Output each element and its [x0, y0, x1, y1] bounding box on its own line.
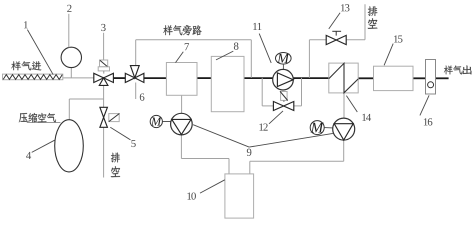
wire: bypass drop to main line — [250, 40, 252, 78]
wire: main sample line box8-pump11 — [244, 77, 273, 79]
left condensate pump — [171, 113, 193, 135]
membrane dryer 14 (square with membrane) — [329, 63, 358, 93]
box 8 (analyzer unit) — [211, 56, 244, 111]
reference numeral 7 — [185, 43, 189, 50]
box 7 (conditioning unit) — [166, 63, 197, 96]
label text: compressed air — [19, 113, 28, 122]
valve 5 (vent solenoid valve) — [100, 107, 108, 117]
reference numeral 11 — [253, 23, 257, 30]
leader line label 12 — [269, 111, 283, 124]
leader line label 1 — [27, 30, 53, 75]
left condensate pump motor M — [150, 115, 162, 127]
label text: sample gas bypass — [163, 25, 172, 35]
label text: vent (below valve 5, vertical) — [111, 153, 120, 163]
wire: valve12 loop right horizontal — [294, 105, 302, 107]
sample pump 11 — [273, 69, 294, 90]
leader line label 16 — [420, 95, 429, 115]
valve 12 (pump bypass solenoid valve) — [273, 102, 283, 111]
reference numeral 3 — [101, 24, 105, 31]
compressed air tank 4 (ellipse) — [55, 120, 84, 172]
valve 6 (three-way bypass valve) — [125, 73, 135, 82]
wire: vent branch riser to valve13 — [308, 40, 310, 78]
wire: left pump drain into box 10 — [228, 159, 230, 174]
condensate collector 10 — [225, 174, 254, 218]
leader line label 14 — [346, 96, 357, 112]
leader line label 6 — [135, 83, 137, 100]
wire: valve12 loop left horizontal — [262, 105, 273, 107]
leader line label 13 — [329, 13, 340, 29]
valve 3 actuator box — [100, 60, 108, 67]
wire: compressed air label underline — [27, 121, 61, 123]
leader line label 7 — [176, 52, 184, 63]
wire: sample inlet line to valve 3 — [63, 77, 94, 79]
reference numeral 12 — [259, 124, 263, 131]
leader line label 2 — [68, 14, 70, 48]
wire: valve13 to vent corner — [346, 39, 365, 41]
wire: valve3 bottom to valve5 — [103, 85, 105, 107]
wire: main sample line dryer14-box15 — [358, 77, 373, 79]
reference numeral 4 — [26, 152, 31, 159]
leader line label 10 — [200, 180, 225, 193]
wire: main sample line box15-flowmeter16 — [413, 77, 426, 79]
wire: box7 stem to pump — [181, 95, 183, 113]
label text: sample gas out — [444, 66, 453, 75]
right condensate pump motor M — [310, 121, 324, 135]
valve 3 (three-way solenoid valve) — [94, 73, 104, 82]
reference numeral 14 — [362, 114, 366, 121]
wire: vent branch to valve13 — [309, 39, 326, 41]
flow meter 16 — [426, 60, 436, 95]
wire: gauge 2 stem — [70, 68, 72, 78]
reference numeral 9 — [247, 149, 252, 156]
leader line label 4 — [32, 140, 55, 152]
wire: main sample line pump11-dryer14 — [293, 77, 329, 79]
reference numeral 8 — [234, 42, 239, 49]
label text: vent (top right, vertical) — [368, 6, 378, 16]
reference numeral 1 — [24, 21, 28, 28]
reference numeral 6 — [140, 93, 145, 100]
wire: dryer14 drain to pump — [343, 93, 345, 118]
wire: main sample line box7-box8 — [197, 77, 211, 79]
wire: left pump drain down — [180, 135, 182, 159]
wire: sample outlet line — [436, 77, 449, 79]
valve 13 (vent valve with handle) — [335, 31, 337, 35]
reference numeral 2 — [67, 5, 71, 12]
wire: valve12 loop right riser — [301, 78, 303, 106]
wire: compressed-air branch down to tank 4 — [68, 99, 70, 120]
wire: right pump drain down — [343, 140, 345, 161]
right condensate pump — [333, 118, 355, 140]
wire: vent riser top right — [364, 4, 366, 40]
reference numeral 5 — [131, 140, 135, 147]
leader lines label 9 (V shape) — [193, 125, 249, 147]
leader line label 11 — [259, 34, 271, 63]
reference numeral 13 — [341, 4, 345, 11]
leader line label 15 — [384, 44, 393, 66]
wire: right pump drain into box 10 — [249, 161, 251, 174]
leader line label 8 — [216, 51, 233, 60]
wire: main sample line valve6-box7 — [144, 77, 167, 79]
wire: compressed-air branch horizontal — [69, 98, 103, 100]
reference numeral 16 — [424, 118, 428, 125]
wire: left pump drain horizontal — [181, 158, 229, 160]
wire: right pump drain horizontal — [250, 160, 344, 162]
wire: valve12 loop left drop — [261, 78, 263, 106]
wire: bypass line horizontal — [136, 39, 252, 41]
leader line label 3 — [103, 33, 105, 60]
valve 12 actuator box — [281, 92, 288, 101]
leader line label 5 — [110, 127, 130, 140]
wire: vent line below valve 5 — [103, 127, 105, 177]
label text: sample gas in — [11, 61, 21, 70]
pump 11 motor M — [276, 53, 292, 65]
wire: main sample line valve3-valve6 — [113, 77, 125, 79]
gauge 2 (circle) — [61, 47, 81, 67]
box 15 (analyzer) — [374, 66, 414, 90]
reference numeral 10 — [187, 193, 191, 200]
heated sample line 1 (zigzag element) — [3, 74, 63, 80]
wire: bypass riser above valve 6 — [135, 40, 137, 66]
reference numeral 15 — [394, 35, 398, 42]
